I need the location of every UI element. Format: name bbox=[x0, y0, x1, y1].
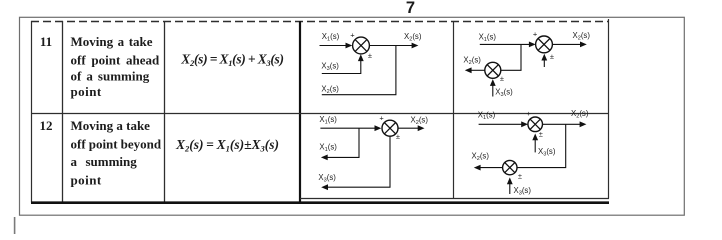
summing junction D2 bbox=[503, 160, 517, 174]
wire output bbox=[369, 45, 413, 47]
svg-text:12: 12 bbox=[40, 118, 53, 133]
svg-text:±: ± bbox=[518, 172, 522, 181]
page border bbox=[20, 17, 685, 215]
column separator col2/col3 bbox=[164, 21, 166, 203]
svg-text:7: 7 bbox=[406, 0, 415, 17]
wire X3 into D1 bottom bbox=[534, 140, 536, 153]
wire stub into B1 bottom bbox=[543, 60, 545, 67]
svg-text:±: ± bbox=[500, 74, 504, 83]
wire takeoff down-left into D2 bbox=[517, 124, 566, 167]
summing junction A1 bbox=[353, 37, 370, 54]
summing junction D1 bbox=[528, 117, 543, 132]
wire D2 output left bbox=[479, 167, 502, 169]
text cursor tick bbox=[14, 217, 16, 234]
wire X1 input bbox=[320, 45, 347, 47]
wire B2 output left bbox=[471, 69, 485, 71]
table left border bbox=[31, 21, 33, 203]
svg-text:off point ahead: off point ahead bbox=[71, 53, 161, 68]
table right border bbox=[608, 19, 610, 199]
svg-text:+: + bbox=[350, 31, 355, 40]
svg-text:11: 11 bbox=[40, 34, 52, 49]
svg-text:Moving a take: Moving a take bbox=[71, 118, 151, 133]
svg-text:a summing: a summing bbox=[71, 154, 138, 169]
wire output bbox=[543, 123, 582, 125]
inner thin bottom border bbox=[300, 198, 609, 200]
svg-text:±: ± bbox=[550, 52, 554, 61]
svg-text:+: + bbox=[526, 109, 531, 118]
column separator col3/col4 (thick) bbox=[299, 21, 301, 203]
row 11 description bbox=[71, 34, 161, 99]
svg-text:off point beyond: off point beyond bbox=[71, 137, 162, 152]
wire output bbox=[398, 127, 420, 129]
wire X3 into D2 bottom bbox=[509, 184, 511, 195]
table dashed top border bbox=[31, 21, 609, 23]
summing junction B1 bbox=[536, 36, 553, 53]
wire X3 into B2 bottom bbox=[492, 86, 494, 97]
wire X1 takeoff down-left bbox=[327, 128, 360, 157]
wire takeoff down-left into B2 bbox=[501, 44, 521, 70]
svg-text:+: + bbox=[533, 30, 538, 39]
svg-text:of a summing: of a summing bbox=[71, 69, 150, 84]
svg-text:±: ± bbox=[396, 132, 400, 141]
svg-text:Moving a take: Moving a take bbox=[71, 34, 153, 49]
svg-text:±: ± bbox=[539, 130, 543, 139]
wire output bbox=[552, 43, 581, 45]
wire X3 into junction bottom bbox=[322, 60, 361, 74]
summing junction C1 bbox=[382, 120, 398, 136]
svg-text:±: ± bbox=[368, 51, 372, 60]
summing junction B2 bbox=[485, 62, 501, 78]
wire X1 input bbox=[480, 43, 531, 45]
column separator col1/col2 bbox=[62, 21, 64, 203]
table thick bottom border bbox=[31, 201, 609, 204]
wire X1 input bbox=[479, 123, 523, 125]
wire X2 takeoff bbox=[322, 46, 396, 95]
svg-text:point: point bbox=[71, 84, 102, 99]
svg-text:point: point bbox=[71, 173, 102, 188]
wire X3 from junction bottom down-left bbox=[327, 136, 391, 187]
column separator col4/col5 bbox=[453, 21, 455, 199]
wire X1 input bbox=[320, 127, 376, 129]
row 12 description bbox=[71, 118, 162, 188]
row separator bbox=[31, 113, 609, 115]
svg-text:+: + bbox=[379, 114, 384, 123]
